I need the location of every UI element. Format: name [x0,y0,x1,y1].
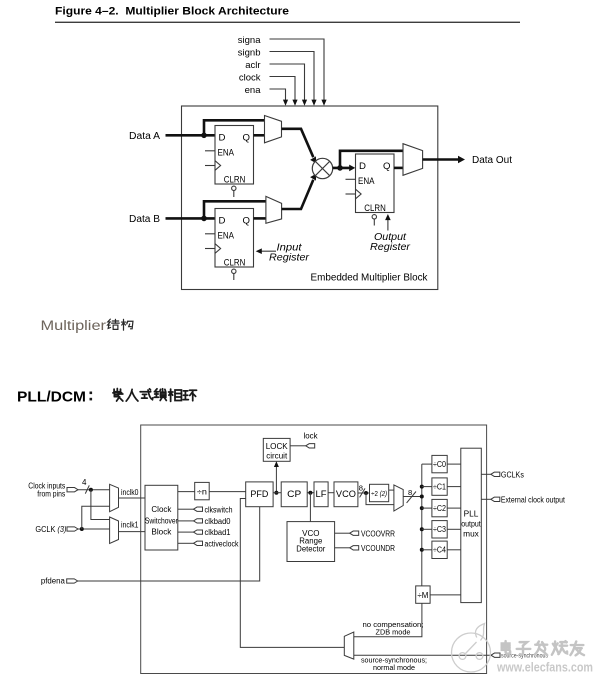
wire GCLKs [481,473,491,475]
watermark hanzi you (友) [570,641,584,655]
wire source-synchronous input [354,654,491,656]
svg-text:www.elecfans.com: www.elecfans.com [496,661,593,675]
wire junction down to VCO range detector [309,493,311,522]
junction node C2 tap [420,506,424,510]
arrowhead ena [283,100,288,106]
junction node C1 tap [420,485,424,489]
wire aclr [270,64,305,100]
wire C0 to output mux [447,463,461,465]
bus slash after VCO [360,488,365,497]
output pin lock [306,444,315,448]
wire FF1 Q to mux [254,134,266,137]
wire GCLK to mux2 [78,528,110,530]
wire C3 to output mux [447,528,461,530]
svg-text:Figure 4–2. Multiplier Block: Figure 4–2. Multiplier Block Architectur… [55,6,289,18]
svg-text:LF: LF [316,489,328,499]
wire divider n to PFD [209,491,246,493]
wire FF3 bypass to mux3 [340,151,404,168]
arrowhead aclr [302,100,307,106]
svg-text:pfdena: pfdena [41,577,66,586]
svg-text:PLL: PLL [464,509,479,519]
heading hanzi suo (锁) [154,389,166,401]
svg-text:clkbad0: clkbad0 [205,517,232,526]
LOCK circuit [263,438,290,461]
svg-text:PFD: PFD [250,489,268,499]
output pin External clock output [491,497,500,501]
output pin VCOUNDR [350,546,359,550]
wire C2 to output mux [447,507,461,509]
wire divider2 to vco mux [389,489,394,491]
wire signa [270,39,325,100]
svg-text:PLL/DCM: PLL/DCM [17,388,86,405]
svg-text:VCO: VCO [336,489,356,499]
counter divider C1 [432,478,447,495]
wire activeclock [178,542,194,544]
output pin clkbad1 [194,530,203,534]
svg-text:mux: mux [463,529,480,539]
multiplier X stroke 1 [315,161,329,175]
wire to C0 [422,463,432,465]
hanzi gou (构) [121,319,132,330]
svg-text:Clock: Clock [151,504,172,514]
flip-flop output register (FF3) [346,154,395,226]
svg-text:8: 8 [359,483,363,492]
svg-text:VCOOVRR: VCOOVRR [361,528,395,538]
svg-text:Register: Register [269,252,310,263]
wire clock inputs to mux [78,489,110,491]
svg-text:8: 8 [408,488,412,497]
svg-text:GCLK (3): GCLK (3) [35,524,66,534]
wire mux2 output to multiplier [282,180,314,209]
svg-text:÷C3: ÷C3 [433,525,447,534]
wire multiplier to FF3 [333,167,351,170]
wire C1 to output mux [447,486,461,488]
input pin Clock inputs from pins [67,488,78,492]
svg-text:4: 4 [82,478,87,487]
arrowhead Data Out [458,156,465,164]
svg-text:÷n: ÷n [197,487,207,497]
arrowhead at FF3 D input [349,165,355,172]
wire VCO output [358,492,370,494]
wire tap to C2 [422,507,432,509]
title rule [55,22,520,23]
svg-text:Data B: Data B [129,214,160,225]
wire ena [270,89,286,100]
bus slash after vco mux [407,492,416,503]
divider 2 (&#247;2) [370,484,389,501]
svg-text:Detector: Detector [296,544,325,553]
junction node multiplier output [337,165,343,171]
svg-text:aclr: aclr [245,60,260,71]
heading hanzi xiang (相) [169,389,182,401]
input pin external feedback [491,653,500,657]
counter divider C2 [432,499,447,516]
wire inclk0 [119,497,146,499]
wire PFD junction up to lock circuit [275,465,277,493]
svg-text:Embedded Multiplier Block: Embedded Multiplier Block [311,273,428,284]
wire mux1 output to multiplier [282,129,314,157]
LF loop filter [314,482,328,507]
heading hanzi huan (环) [183,390,196,401]
output pin GCLKs [491,472,500,476]
inclk1 input mux [110,517,119,544]
svg-text:GCLKs: GCLKs [501,470,524,480]
wire Data B bypass to mux [204,201,266,218]
wire CP to LF [307,492,314,494]
svg-text:Switchover: Switchover [145,515,178,525]
svg-text:÷C2: ÷C2 [433,504,446,513]
VCO Range Detector [287,522,335,562]
wire tap to C3 [422,528,432,530]
heading hanzi shi (式) [140,389,153,400]
wire clock input down to inclk1 mux [91,490,110,520]
svg-text:clkswitch: clkswitch [205,505,233,514]
wire counter distribution vertical [421,464,423,586]
svg-text:normal mode: normal mode [373,663,415,672]
arrow Input Register pointing to FF2 [260,250,277,252]
watermark hanzi shao (烧) [552,641,567,655]
wire Data A [166,134,216,137]
svg-text:from pins: from pins [37,489,65,499]
VCO [334,482,358,507]
junction node clock input [89,488,93,492]
svg-text:inclk0: inclk0 [121,488,139,497]
wire Data A bypass to mux [204,120,265,135]
output pin VCOOVRR [350,531,359,535]
junction node C3 tap [420,527,424,531]
counter divider C4 [432,541,447,558]
heading colon dot 1 [90,392,93,395]
bus width slash [85,485,89,493]
svg-text:lock: lock [304,432,318,441]
wire clkswitch [178,508,194,510]
svg-text:activeclock: activeclock [205,539,239,548]
counter divider C0 [432,455,447,472]
junction node PFD-CP [274,491,278,495]
divider M (&#247;M) [416,586,430,603]
wire output mux to divider M [430,594,461,596]
junction node CP-LF [308,491,312,495]
svg-text:Data Out: Data Out [472,155,512,166]
junction node C4 tap [420,548,424,552]
watermark hanzi zi (子) [517,642,531,655]
wire tap to C1 [422,486,432,488]
svg-text:circuit: circuit [266,451,288,460]
junction node main into distribution [420,495,424,499]
wire GCLK up to inclk0 mux [82,506,110,529]
output pin clkbad0 [194,519,203,523]
mux after FF2 [266,196,282,223]
svg-text:ZDB mode: ZDB mode [376,628,411,637]
CP charge pump [281,482,307,507]
arrowhead signb [311,100,316,106]
flip-flop input register A (FF1) [205,126,254,198]
wire C4 to output mux [447,549,461,551]
hanzi jie (结) [108,319,120,329]
mux3 output mux [403,144,423,176]
arrowhead into multiplier top [310,156,316,163]
junction node Data B [201,216,207,222]
svg-text:Block: Block [151,527,172,537]
junction node VCO output [364,491,368,495]
svg-text:LOCK: LOCK [266,442,289,451]
wire LF to VCO [328,492,334,494]
wire feedback mux to PFD [240,499,344,648]
svg-text:clkbad1: clkbad1 [205,528,231,537]
svg-text:signb: signb [238,48,261,59]
wire signb [270,52,315,101]
PLL outer block boundary [141,425,487,674]
embedded multiplier block outer box [182,106,438,290]
arrowhead signa [321,100,326,106]
wire External clock output [481,498,491,500]
flip-flop input register B (FF2) [205,209,254,281]
svg-text:External clock output: External clock output [501,495,566,505]
wire VCOOVRR [335,532,350,534]
vco output mux [394,485,403,511]
watermark hanzi fa (发) [535,641,548,655]
counter divider C3 [432,521,447,538]
divider n (&#247;n) [195,482,210,499]
heading hanzi qian (嵌) [113,388,123,401]
wire VCO bypass under divider 2 [366,493,394,505]
wire pfdena to PFD [78,507,260,581]
svg-text:÷C4: ÷C4 [433,546,447,555]
heading colon dot 2 [90,398,93,401]
svg-text:÷C0: ÷C0 [433,460,447,469]
svg-text:clock: clock [239,73,261,84]
svg-text:signa: signa [238,35,261,46]
wire Data Out [423,158,460,161]
heading hanzi ru (入) [126,389,138,401]
output pin activeclock [194,541,203,545]
wire VCOUNDR [335,547,350,549]
junction node Data A [201,133,207,139]
PFD phase frequency detector [246,482,273,507]
wire clock [270,77,296,101]
wire clkbad1 [178,531,194,533]
watermark hanzi dian (电) [502,641,510,654]
input pin GCLK [67,527,78,531]
svg-text:Multiplier: Multiplier [41,318,107,334]
wire switchover to divider n [178,491,195,493]
Clock Switchover Block [145,485,178,550]
junction node GCLK [80,527,84,531]
wire FF2 Q to mux [254,217,267,220]
svg-text:Register: Register [370,242,411,253]
wire divider M down to feedback mux (no compensation path) [354,603,422,636]
wire Data B [166,217,216,220]
arrowhead into multiplier bottom [310,174,316,181]
svg-text:ena: ena [245,85,262,96]
arrowhead into lock circuit [274,461,279,467]
wire inclk1 [119,531,146,533]
input pin pfdena [67,579,78,583]
inclk0 input mux [110,484,119,511]
feedback mux [344,632,354,659]
svg-text:÷C1: ÷C1 [433,483,446,492]
svg-text:output: output [461,519,481,529]
svg-text:Data A: Data A [129,131,160,142]
output pin clkswitch [194,507,203,511]
svg-text:inclk1: inclk1 [121,521,139,530]
wire FF3 Q to mux3 [394,167,404,170]
wire tap to C4 [422,549,432,551]
svg-text:VCOUNDR: VCOUNDR [361,543,395,553]
wire lock output [290,445,306,447]
wire vco mux to counters [403,496,422,498]
PLL output mux [461,448,482,602]
multiplier circle [312,158,332,178]
watermark logo circle [452,624,491,673]
wire clkbad0 [178,520,194,522]
arrow Output Register pointing to FF3 [387,218,389,231]
wire PFD to CP [273,492,281,494]
arrowhead clock [292,100,297,106]
svg-text:÷M: ÷M [417,590,428,600]
multiplier X stroke 2 [315,161,329,175]
svg-text:÷2 (2): ÷2 (2) [371,489,387,498]
mux after FF1 [265,116,282,143]
svg-text:CP: CP [287,489,301,499]
